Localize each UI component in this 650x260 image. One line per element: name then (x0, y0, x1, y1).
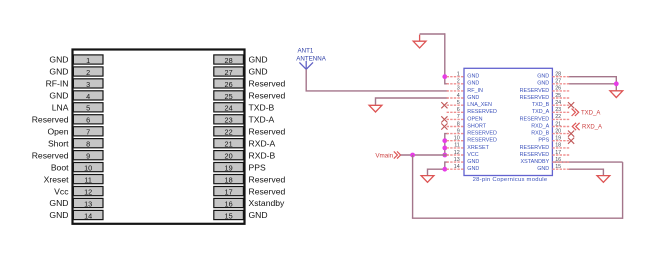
U1 pin 2 GND: stub, number, name (447, 79, 480, 87)
svg-text:GND: GND (467, 74, 479, 80)
U1 pin 17 RESERVED: stub, number, name (520, 150, 570, 158)
svg-text:RXD_A: RXD_A (531, 123, 549, 129)
ground symbol (pin 4) (369, 105, 382, 112)
svg-text:Vcc: Vcc (54, 186, 69, 196)
svg-text:GND: GND (49, 67, 68, 77)
antenna ANT1 label text (296, 48, 326, 63)
svg-text:26: 26 (225, 80, 233, 89)
DIP pin 25 box (Reserved) (214, 91, 244, 101)
svg-text:28: 28 (225, 56, 233, 65)
svg-text:12: 12 (84, 188, 92, 197)
svg-text:22: 22 (225, 128, 233, 137)
DIP pin 11 box (Xreset) (73, 175, 103, 185)
svg-text:Reserved: Reserved (249, 186, 286, 196)
svg-text:3: 3 (86, 80, 90, 89)
wire: top ground over to pin1/pin2 column (420, 33, 445, 35)
U1 pin 28 GND: stub, number, name (537, 72, 570, 80)
svg-text:TXD_B: TXD_B (532, 102, 550, 108)
svg-text:8: 8 (457, 121, 460, 127)
svg-text:18: 18 (225, 176, 233, 185)
DIP pin 26 box (Reserved) (214, 79, 244, 89)
svg-text:TXD_A: TXD_A (581, 110, 600, 116)
svg-text:10: 10 (454, 136, 460, 142)
svg-text:14: 14 (84, 211, 92, 220)
DIP pin 4 box (GND) (73, 91, 103, 101)
svg-text:23: 23 (225, 116, 233, 125)
svg-text:14: 14 (454, 164, 460, 170)
U1 pin 11 XRESET: stub, number, name (447, 143, 490, 151)
DIP pin 10 box (Boot) (73, 163, 103, 173)
svg-text:GND: GND (49, 210, 68, 220)
svg-text:GND: GND (49, 91, 68, 101)
svg-text:GND: GND (249, 55, 268, 65)
svg-text:5: 5 (457, 100, 460, 106)
chevron port RXD_A << at U1 pin 21 (572, 123, 579, 130)
ground symbol (pin 15) (597, 176, 610, 183)
DIP pin 5 box (LNA) (73, 103, 103, 113)
U1 pin 3 RF_IN: stub, number, name (447, 86, 483, 94)
U1 pin 16 XSTANDBY: stub, number, name (521, 157, 570, 165)
svg-text:11: 11 (454, 143, 460, 149)
U1 pin 14 GND: stub, number, name (447, 164, 480, 172)
junction dot at U1 pin 1 (442, 74, 447, 79)
U1 pin 7 OPEN: stub, number, name (441, 114, 482, 122)
wire: U1 pin 14 GND to ground (428, 169, 449, 175)
svg-text:28: 28 (555, 72, 561, 78)
U1 pin 19 PPS: stub, number, name (538, 136, 574, 144)
svg-text:RXD-A: RXD-A (249, 138, 276, 148)
svg-text:RESERVED: RESERVED (520, 95, 550, 101)
svg-text:GND: GND (537, 74, 549, 80)
svg-text:2: 2 (86, 68, 90, 77)
svg-text:25: 25 (225, 92, 233, 101)
chevron port TXD_A >> at U1 pin 23 (572, 109, 579, 116)
svg-text:13: 13 (454, 157, 460, 163)
svg-text:7: 7 (457, 114, 460, 120)
wire: U1 pin 15 GND to ground (568, 169, 603, 175)
wire: antenna to U1 pin 3 RF_IN (306, 90, 449, 92)
svg-text:GND: GND (467, 95, 479, 101)
svg-text:25: 25 (555, 93, 561, 99)
svg-text:4: 4 (457, 93, 460, 99)
U1 pin 18 RESERVED: stub, number, name (520, 143, 570, 151)
junction dot pin 11 (442, 146, 447, 151)
svg-text:26: 26 (555, 86, 561, 92)
svg-text:TXD-A: TXD-A (249, 115, 275, 125)
DIP pin 23 box (TXD-A) (214, 115, 244, 125)
wire: up right side to pin 16 row (622, 162, 624, 219)
svg-text:21: 21 (555, 121, 561, 127)
svg-text:Reserved: Reserved (249, 91, 286, 101)
svg-text:PPS: PPS (538, 138, 549, 144)
svg-text:RESERVED: RESERVED (520, 116, 550, 122)
svg-text:Reserved: Reserved (32, 115, 69, 125)
U1 pin 24 TXD_B: stub, number, name (532, 100, 574, 108)
svg-text:GND: GND (49, 55, 68, 65)
DIP pin 18 box (Reserved) (214, 175, 244, 185)
svg-text:RESERVED: RESERVED (520, 88, 550, 94)
wire: vertical down to U1 pins 1-2 (445, 33, 448, 84)
U1 pin 20 RXD_B: stub, number, name (531, 128, 574, 136)
junction dot pin 14 (442, 167, 447, 172)
DIP pin 6 box (Reserved) (73, 115, 103, 125)
svg-text:ANT1: ANT1 (298, 48, 314, 55)
svg-text:28-pin Copernicus module: 28-pin Copernicus module (473, 177, 548, 183)
DIP pin 22 box (Reserved) (214, 127, 244, 137)
svg-text:RXD_B: RXD_B (531, 131, 549, 137)
svg-text:4: 4 (86, 92, 90, 101)
wire: to U1 pin 16 XSTANDBY (552, 161, 623, 163)
U1 pin 9 RESERVED: stub, number, name (447, 128, 497, 136)
svg-text:10: 10 (84, 164, 92, 173)
IC body (28-pin DIP pinout outline) (73, 50, 245, 224)
svg-text:GND: GND (537, 81, 549, 87)
wire: Vmain down left side (412, 155, 414, 218)
DIP pin 14 box (GND) (73, 210, 103, 220)
DIP pin 19 box (PPS) (214, 163, 244, 173)
U1 pin 21 RXD_A: stub, number, name (531, 121, 570, 129)
DIP pin 13 box (GND) (73, 198, 103, 208)
U1 pin 1 GND: stub, number, name (447, 72, 480, 80)
U1 pin 15 GND: stub, number, name (537, 164, 570, 172)
svg-text:RESERVED: RESERVED (467, 138, 497, 144)
svg-text:1: 1 (86, 56, 90, 65)
svg-text:PPS: PPS (249, 162, 266, 172)
svg-text:17: 17 (555, 150, 561, 156)
DIP pin 21 box (RXD-A) (214, 139, 244, 149)
svg-text:20: 20 (555, 128, 561, 134)
svg-text:SHORT: SHORT (467, 123, 486, 129)
junction dot pin 12 (442, 153, 447, 158)
U1 pin 12 VCC: stub, number, name (447, 150, 479, 158)
DIP pin 9 box (Reserved) (73, 151, 103, 161)
DIP pin 20 box (RXD-B) (214, 151, 244, 161)
ground symbol (antenna ground, top) (413, 35, 426, 48)
svg-text:Vmain: Vmain (375, 152, 393, 159)
chevron port Vmain >> (394, 151, 401, 158)
svg-text:15: 15 (555, 164, 561, 170)
DIP pin 28 box (GND) (214, 55, 244, 65)
svg-text:Boot: Boot (51, 162, 69, 172)
svg-text:20: 20 (225, 152, 233, 161)
svg-text:RESERVED: RESERVED (467, 109, 497, 115)
DIP pin 2 box (GND) (73, 67, 103, 77)
svg-text:6: 6 (457, 107, 460, 113)
svg-text:GND: GND (249, 67, 268, 77)
svg-text:XSTANDBY: XSTANDBY (521, 159, 550, 165)
wire: U1 pin 28 GND right (568, 77, 616, 84)
svg-text:16: 16 (225, 199, 233, 208)
svg-text:Reserved: Reserved (249, 79, 286, 89)
svg-text:Xstandby: Xstandby (249, 198, 286, 208)
U1 pin 8 SHORT: stub, number, name (441, 121, 486, 129)
svg-text:Xreset: Xreset (44, 174, 69, 184)
svg-text:Open: Open (47, 127, 68, 137)
svg-text:LNA_XEN: LNA_XEN (467, 102, 492, 108)
svg-text:24: 24 (225, 104, 233, 113)
wire: Vmain to U1 pin 12 VCC (401, 154, 448, 156)
svg-text:GND: GND (49, 198, 68, 208)
svg-text:Reserved: Reserved (32, 150, 69, 160)
svg-text:RXD-B: RXD-B (249, 150, 276, 160)
svg-text:LNA: LNA (52, 103, 69, 113)
svg-text:24: 24 (555, 100, 561, 106)
antenna ANT1 symbol (299, 61, 313, 69)
wire: bottom rail (412, 217, 623, 219)
U1 pin 26 RESERVED: stub, number, name (520, 86, 570, 94)
svg-text:OPEN: OPEN (467, 116, 482, 122)
svg-text:11: 11 (84, 176, 92, 185)
DIP pin 24 box (TXD-B) (214, 103, 244, 113)
svg-text:TXD-B: TXD-B (249, 103, 275, 113)
svg-text:19: 19 (555, 136, 561, 142)
ground symbol (pins 13/14) (421, 176, 434, 183)
svg-text:15: 15 (225, 211, 233, 220)
svg-text:3: 3 (457, 86, 460, 92)
svg-text:RESERVED: RESERVED (520, 145, 550, 151)
DIP pin 17 box (Reserved) (214, 187, 244, 197)
svg-text:1: 1 (457, 72, 460, 78)
svg-text:Reserved: Reserved (249, 174, 286, 184)
svg-text:22: 22 (555, 114, 561, 120)
U1 pin 10 RESERVED: stub, number, name (447, 136, 497, 144)
svg-text:GND: GND (249, 210, 268, 220)
wire: antenna down to RF_IN row (305, 69, 307, 91)
svg-text:GND: GND (467, 166, 479, 172)
svg-text:GND: GND (467, 159, 479, 165)
svg-text:19: 19 (225, 164, 233, 173)
svg-text:GND: GND (537, 166, 549, 172)
DIP pin 1 box (GND) (73, 55, 103, 65)
wire: U1 pin 27 GND right (568, 84, 616, 91)
svg-text:RXD_A: RXD_A (582, 125, 602, 131)
svg-text:2: 2 (457, 79, 460, 85)
svg-text:9: 9 (86, 152, 90, 161)
U1 pin 4 GND: stub, number, name (447, 93, 480, 101)
svg-text:21: 21 (225, 140, 233, 149)
svg-text:RF_IN: RF_IN (467, 88, 483, 94)
U1 pin 23 TXD_A: stub, number, name (532, 107, 570, 115)
op-amp/module U1 body: 28-pin Copernicus module (464, 68, 552, 175)
svg-text:16: 16 (555, 157, 561, 163)
svg-text:Reserved: Reserved (249, 127, 286, 137)
svg-text:XRESET: XRESET (467, 145, 489, 151)
DIP pin 12 box (Vcc) (73, 187, 103, 197)
svg-text:18: 18 (555, 143, 561, 149)
U1 pin 22 RESERVED: stub, number, name (520, 114, 570, 122)
U1 pin 5 LNA_XEN: stub, number, name (441, 100, 492, 108)
svg-text:RESERVED: RESERVED (520, 152, 550, 158)
svg-text:GND: GND (467, 81, 479, 87)
svg-text:8: 8 (86, 140, 90, 149)
U1 pin 13 GND: stub, number, name (447, 157, 480, 165)
svg-text:ANTENNA: ANTENNA (296, 55, 326, 62)
svg-text:RF-IN: RF-IN (46, 79, 69, 89)
svg-text:RESERVED: RESERVED (467, 131, 497, 137)
svg-text:TXD_A: TXD_A (532, 109, 550, 115)
junction dot pin 27 (614, 81, 619, 86)
DIP pin 7 box (Open) (73, 127, 103, 137)
svg-text:27: 27 (555, 79, 561, 85)
svg-text:12: 12 (454, 150, 460, 156)
DIP pin 16 box (Xstandby) (214, 198, 244, 208)
svg-text:7: 7 (86, 128, 90, 137)
ground symbol (pins 27/28) (610, 91, 623, 98)
svg-text:Short: Short (48, 138, 69, 148)
svg-text:VCC: VCC (467, 152, 478, 158)
wire: U1 pin 13 GND jog down (445, 162, 448, 169)
svg-text:9: 9 (457, 128, 460, 134)
DIP pin 27 box (GND) (214, 67, 244, 77)
U1 pin 25 RESERVED: stub, number, name (520, 93, 570, 101)
U1 pin 6 RESERVED: stub, number, name (447, 107, 497, 115)
wire: U1 pins 9-12 bus (vertical) (445, 134, 448, 155)
junction dot Vmain tee (410, 153, 415, 158)
wire: U1 pin 4 GND to ground (376, 98, 449, 105)
svg-text:5: 5 (86, 104, 90, 113)
DIP pin 8 box (Short) (73, 139, 103, 149)
svg-text:27: 27 (225, 68, 233, 77)
svg-text:17: 17 (225, 188, 233, 197)
DIP pin 15 box (GND) (214, 210, 244, 220)
junction dot pin 10 (442, 138, 447, 143)
U1 pin 27 GND: stub, number, name (537, 79, 570, 87)
svg-text:13: 13 (84, 199, 92, 208)
DIP pin 3 box (RF-IN) (73, 79, 103, 89)
svg-text:23: 23 (555, 107, 561, 113)
svg-text:6: 6 (86, 116, 90, 125)
